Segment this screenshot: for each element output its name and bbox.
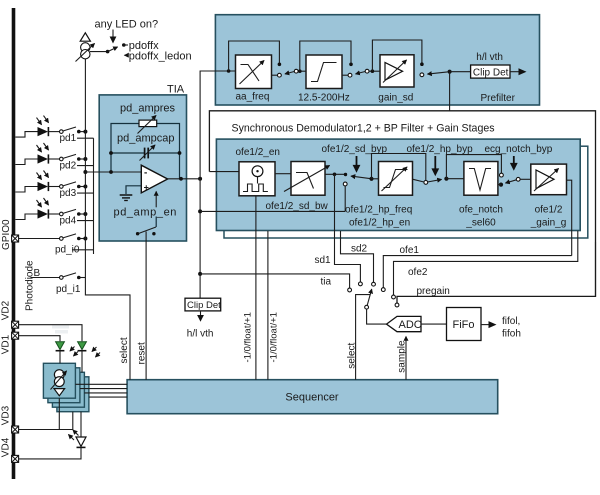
svg-text:h/l vth: h/l vth [476, 52, 503, 63]
bypass loop over gain_sd [372, 40, 422, 71]
svg-text:Clip Det: Clip Det [187, 300, 221, 311]
svg-text:12.5-200Hz: 12.5-200Hz [298, 92, 350, 103]
Sequencer block (blue box) [127, 380, 498, 414]
wire gain_g output to ofe1 riser [567, 180, 572, 255]
contact tia [348, 288, 352, 292]
svg-text:sample: sample [396, 340, 407, 373]
arrow FiFo output [481, 324, 491, 326]
ghost label (faded) [52, 325, 69, 329]
wire pd3 label to control bus [77, 192, 94, 194]
node notch input [444, 177, 448, 181]
svg-text:-1/0/float/+1: -1/0/float/+1 [269, 312, 280, 362]
wire TIA reset down [145, 232, 147, 380]
node TIA output [179, 177, 183, 181]
node pd4 on photodiode bus [83, 212, 87, 216]
bypass loop over notch filter [446, 155, 501, 179]
svg-text:ofe1/2_hp_freq: ofe1/2_hp_freq [345, 205, 412, 216]
svg-text:+: + [144, 182, 149, 192]
node feedback right [178, 151, 182, 155]
filter aa_freq box [236, 55, 272, 89]
node pd2 on photodiode bus [83, 157, 87, 161]
pd offset current source symbol (terminal triangle) [80, 33, 90, 41]
svg-text:tia: tia [321, 277, 332, 288]
wire VD1 to LED1 [19, 336, 61, 342]
photodiode pd4 [38, 209, 49, 218]
filter ofe_notch box [464, 162, 498, 196]
node TIA input [109, 170, 113, 174]
wire mux output to ADC [367, 309, 387, 324]
switch after 12.5-200Hz [342, 74, 348, 76]
svg-text:_gain_g: _gain_g [530, 218, 567, 229]
LED driver stacked box 3 [52, 372, 84, 407]
node pd3 on photodiode bus [83, 185, 87, 189]
clip detector 1 [471, 65, 510, 78]
node tia mux tap [198, 272, 202, 276]
Prefilter block (blue box) [215, 15, 539, 105]
svg-text:VD1: VD1 [1, 334, 12, 354]
pin VD3 [12, 426, 19, 433]
svg-text:ofe1: ofe1 [400, 245, 420, 256]
svg-text:gain_sd: gain_sd [378, 93, 413, 104]
wire TIA output down to clip detector [199, 179, 201, 298]
arrow hp_byp indicator [434, 156, 436, 170]
diode external LED [76, 437, 86, 446]
wire pregain riser (along outer frame) [595, 242, 597, 296]
contact pregain [395, 303, 399, 307]
switch pd3 [48, 186, 59, 188]
capacitor pd_ampcap (variable) [111, 152, 144, 154]
contact hp bypass [424, 181, 428, 185]
svg-text:-: - [144, 168, 147, 179]
pd control bus (vertical) [93, 138, 95, 254]
svg-text:Synchronous Demodulator1,2 + B: Synchronous Demodulator1,2 + BP Filter +… [232, 123, 495, 135]
arrow sd_byp indicator [356, 156, 358, 167]
wire to gain_g [520, 178, 531, 180]
wire sd1 tap down to mux [335, 174, 361, 282]
switch ecg_notch_byp arm [506, 180, 517, 183]
node sd1 tap [333, 173, 337, 177]
photodiode pd2 anode wire from rail [15, 159, 37, 165]
svg-text:ofe1/2_en: ofe1/2_en [236, 147, 281, 158]
svg-text:pdoffx_ledon: pdoffx_ledon [129, 51, 192, 63]
wire sd2 from ch2 to mux [341, 231, 374, 282]
pin VD4 [12, 455, 19, 462]
wire VD2 to LED2 [19, 325, 83, 342]
TIA feedback network rails [111, 124, 139, 173]
node pd1 on photodiode bus [83, 130, 87, 134]
contact sd direct [344, 173, 347, 176]
switch pd2 [48, 158, 59, 160]
wire ofe1 to mux [383, 256, 571, 288]
svg-text:-1/0/float/+1: -1/0/float/+1 [243, 312, 254, 362]
wire driver stack to sequencer 3 [84, 392, 127, 394]
arrow clip detector 2 output [200, 311, 202, 317]
node B and wire to pd_i1 switch [31, 277, 60, 279]
svg-text:pd_ampres: pd_ampres [120, 103, 176, 115]
Synchronous Demodulator channel 2 (stacked box) [224, 146, 588, 238]
wire demod input [209, 171, 239, 173]
svg-text:pd4: pd4 [60, 215, 77, 226]
svg-text:FiFo: FiFo [453, 319, 475, 331]
svg-text:select: select [119, 337, 130, 363]
GPIO/VD pin rail (thick vertical bus line) [12, 8, 16, 479]
photodiode pd1 [38, 127, 49, 136]
photodiode pd3 [38, 182, 49, 191]
node feedback left [109, 151, 113, 155]
LED driver box 1 (current source) [43, 363, 75, 398]
svg-text:Clip Det: Clip Det [473, 67, 509, 78]
filter 12.5-200Hz box [306, 55, 342, 89]
wire pd4 label to control bus [77, 220, 94, 222]
light arrows into pd4 [37, 200, 42, 207]
filter ofe1/2_hp_freq box [379, 162, 413, 196]
wire TIA output up to prefilter input [200, 71, 235, 179]
LED current source output triangle [54, 389, 65, 396]
svg-text:fifol,: fifol, [502, 316, 520, 327]
wire pd2 label to control bus [77, 165, 94, 167]
photodiode pd1 anode wire from rail [15, 132, 37, 138]
svg-text:ofe2: ofe2 [408, 267, 428, 278]
wire current source to pdoffx switch [90, 51, 108, 53]
wire LED2 to driver stack [81, 351, 83, 373]
contact sd bypass [343, 182, 347, 186]
wire mux select from sequencer [356, 295, 371, 380]
FiFo block [447, 308, 482, 341]
svg-text:fifoh: fifoh [502, 328, 521, 339]
wire sd_bw output [325, 173, 344, 175]
wire bus to select line corner [85, 278, 130, 380]
light arrows into pd3 [37, 173, 42, 180]
op-amp U-TIA [141, 165, 167, 193]
wire ofe2 from ch2 to mux [394, 231, 578, 295]
switch ofe1/2_hp_byp arm [427, 179, 441, 182]
clip detector 2 [185, 298, 221, 311]
contact ofe2 [392, 295, 396, 299]
pin VD1 [12, 332, 19, 339]
svg-text:any LED on?: any LED on? [95, 19, 159, 31]
wire demod bypass (from TIA) [200, 210, 345, 212]
wire sample control with arrow into ADC [405, 337, 407, 380]
wire diode riser [80, 412, 82, 437]
switch pd_i1 [60, 276, 64, 280]
wire to clip detector 1 [450, 71, 471, 73]
svg-text:Prefilter: Prefilter [481, 93, 516, 104]
mux pivot [365, 305, 369, 309]
bypass loop over hp filter [372, 154, 426, 181]
wire float control 2 (demod ch2 to sequencer) [267, 231, 269, 380]
photodiode summing bus (vertical) [84, 59, 86, 278]
wire TIA input [85, 171, 141, 173]
switch pd_i0 [19, 238, 60, 240]
svg-text:reset: reset [136, 342, 147, 364]
demodulator mixer box [239, 162, 275, 196]
amplifier gain_sd box [380, 55, 414, 87]
switch ofe1/2_sd_byp arm [351, 176, 370, 179]
switch pd1 [48, 131, 59, 133]
svg-text:ecg_notch_byp: ecg_notch_byp [485, 144, 553, 155]
wire bypass riser [344, 186, 346, 212]
wire to gain_sd [369, 70, 380, 72]
resistor pd_ampres (variable) [139, 120, 157, 127]
amplifier ofe1/2_gain_g box [531, 164, 567, 195]
LED current source symbol [54, 370, 64, 380]
wire ADC to FiFo [421, 323, 447, 325]
svg-text:pd_i1: pd_i1 [56, 284, 81, 295]
wire driver stack to sequencer 2 [80, 388, 127, 390]
photodiode pd3 anode wire from rail [15, 187, 37, 193]
svg-text:ofe1/2: ofe1/2 [535, 205, 563, 216]
svg-text:ADC: ADC [399, 319, 422, 331]
svg-text:select: select [346, 342, 357, 368]
contact gain input [516, 177, 520, 181]
svg-text:ofe1/2_hp_byp: ofe1/2_hp_byp [407, 144, 474, 155]
bypass loop over 12.5-200Hz [300, 41, 351, 71]
svg-text:ofe1/2_hp_en: ofe1/2_hp_en [349, 218, 410, 229]
wire VD4 [19, 447, 82, 459]
wire to bandpass [298, 70, 306, 72]
contact ofe1 [381, 288, 385, 292]
light arrows into pd2 [37, 145, 42, 152]
arrow prefilter output [510, 71, 520, 73]
LED VD1 (green) [56, 342, 65, 350]
svg-text:pd3: pd3 [60, 188, 77, 199]
LED driver stacked box 2 [48, 368, 80, 403]
wire driver output down [58, 398, 60, 429]
wire driver stack to sequencer 4 [89, 396, 127, 398]
switch pd4 [48, 213, 59, 215]
wire pd1 label to control bus [77, 137, 94, 139]
node prefilter tap [198, 177, 202, 181]
mux arm [367, 289, 372, 305]
node prefilter output [448, 70, 452, 74]
svg-text:h/l vth: h/l vth [187, 328, 214, 339]
svg-text:sd2: sd2 [351, 244, 368, 255]
svg-text:VD3: VD3 [1, 405, 12, 425]
node sd output [369, 177, 373, 181]
light arrows into pd1 [37, 118, 42, 125]
contact notch bypass [500, 173, 504, 177]
light arrows external LED [73, 430, 79, 436]
switch after gain_sd [420, 73, 424, 77]
light arrows LED2 [92, 347, 97, 352]
arrow pdoffx_ledon [125, 54, 129, 56]
Synchronous Demodulator outer frame [209, 111, 595, 303]
photodiode pd2 [38, 154, 49, 163]
contact sd2 [372, 282, 376, 286]
svg-text:sd1: sd1 [315, 255, 332, 266]
svg-text:B: B [34, 268, 41, 279]
node demod bypass tap [198, 209, 202, 213]
svg-text:VD4: VD4 [1, 437, 12, 457]
enable arrow into op-amp [155, 192, 157, 208]
svg-text:ofe_notch: ofe_notch [459, 205, 503, 216]
wire pd_i0 label to control bus [72, 249, 94, 251]
svg-text:pd1: pd1 [60, 133, 77, 144]
wire driver stack to sequencer 1 [75, 383, 127, 385]
arrow notch_byp indicator [513, 156, 515, 165]
wire LED1 to driver stack [59, 351, 61, 364]
svg-text:_sel60: _sel60 [465, 218, 496, 229]
wire sd output to hp filter [372, 178, 379, 180]
svg-text:pd2: pd2 [60, 160, 77, 171]
switch TIA reset [155, 217, 157, 228]
filter ofe1/2_sd_bw box [291, 162, 325, 196]
pin VD2 [12, 321, 19, 328]
switch pdoffx / pdoffx_ledon [106, 50, 110, 54]
switch after aa_freq [272, 74, 278, 76]
light arrows LED1 [70, 347, 75, 352]
svg-text:TIA: TIA [167, 84, 185, 96]
node notch output [499, 183, 503, 187]
arrow from label down to pdoffx switch [112, 30, 114, 39]
wire TIA output [168, 178, 201, 180]
LED driver stacked box 4 [57, 377, 89, 412]
TIA block (blue box) [99, 95, 186, 241]
photodiode pd4 anode wire from rail [15, 214, 37, 220]
wire demod to sd_bw [275, 173, 291, 175]
wire VD3 [19, 412, 73, 430]
wire notch input [446, 178, 464, 180]
node TIA input on bus [83, 170, 87, 174]
ADC block [387, 316, 422, 331]
wire hp output [413, 179, 424, 182]
wire prefilter output down to demod section edge [449, 72, 451, 111]
Synchronous Demodulator channel 1 (blue box) [216, 139, 580, 230]
svg-text:ofe1/2_sd_bw: ofe1/2_sd_bw [266, 201, 329, 212]
svg-text:pd_amp_en: pd_amp_en [114, 207, 178, 219]
bypass loop over aa_freq [227, 69, 231, 73]
LED VD2 (green) [78, 342, 87, 350]
svg-text:aa_freq: aa_freq [236, 91, 270, 102]
wire op-amp plus input to ground [126, 186, 141, 194]
wire tia tap to mux contact [200, 274, 350, 288]
pin GPIO0 [12, 235, 19, 242]
svg-text:GPIO0: GPIO0 [1, 219, 12, 250]
pd offset current source (two circles with arrow) [81, 43, 90, 52]
wire float control 1 (demod ch1 to sequencer) [255, 196, 257, 380]
ground [120, 194, 133, 196]
contact sd1 [359, 282, 363, 286]
svg-text:pregain: pregain [417, 286, 450, 297]
svg-text:Sequencer: Sequencer [285, 392, 339, 404]
svg-text:VD2: VD2 [1, 300, 12, 320]
svg-text:pd_ampcap: pd_ampcap [117, 132, 175, 144]
